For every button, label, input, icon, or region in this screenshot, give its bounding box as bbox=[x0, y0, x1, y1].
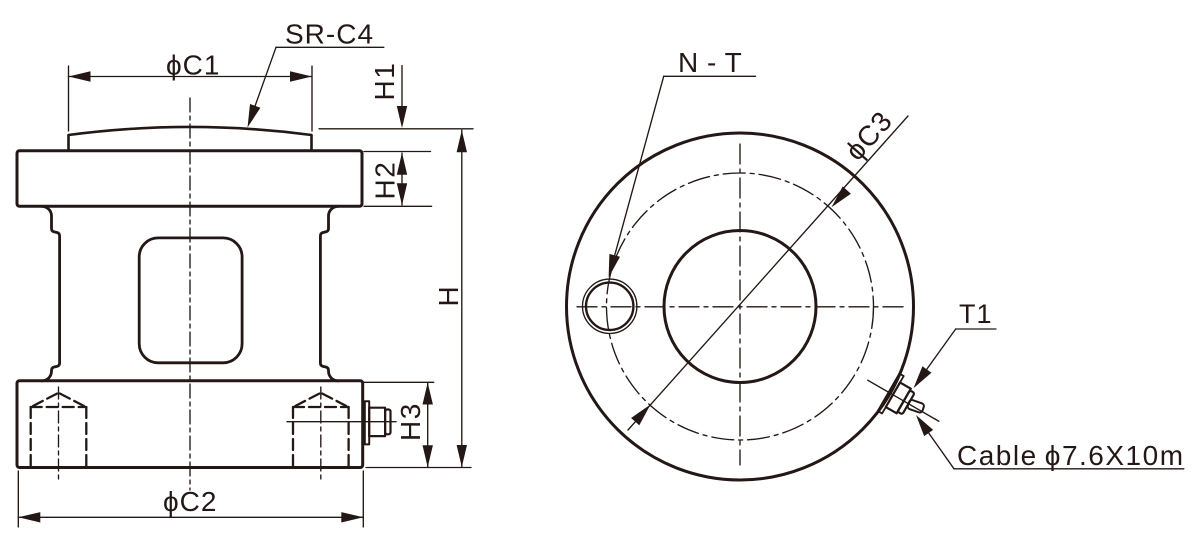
left view: cable entry fitting nub bbox=[385, 410, 390, 435]
svg-text:ϕC1: ϕC1 bbox=[166, 50, 220, 81]
left view: cable entry fitting plate bbox=[365, 401, 369, 444]
dimension H3: down arrowhead bbox=[423, 445, 433, 467]
dimension phiC2: left arrowhead bbox=[18, 512, 40, 522]
left view: left threaded hole (hidden, dashed) bbox=[31, 391, 87, 466]
left view: column body silhouette left side bbox=[42, 206, 60, 381]
left view: spherical load button (dome) bbox=[69, 127, 312, 151]
extension line at flange top (for H1/H2) bbox=[364, 151, 431, 153]
svg-text:H3: H3 bbox=[395, 402, 426, 441]
svg-text:H: H bbox=[433, 286, 464, 306]
svg-text:H2: H2 bbox=[370, 161, 401, 200]
cable gland axis center line bbox=[868, 380, 939, 421]
cable gland plate bbox=[878, 374, 904, 414]
label Cable leader line bbox=[929, 433, 954, 469]
dimension phiC1: right arrowhead bbox=[290, 71, 312, 81]
dimension phiC1: dimension line bbox=[69, 76, 313, 78]
label SR-C4 leader line bbox=[249, 47, 276, 123]
svg-text:SR-C4: SR-C4 bbox=[285, 19, 374, 50]
label Cable underline bbox=[954, 468, 1184, 470]
dimension H3: dimension line bbox=[427, 383, 429, 468]
dimension H2: dimension line bbox=[401, 153, 403, 205]
left view: cable fitting center line bbox=[287, 421, 396, 423]
dimension H: dimension line bbox=[461, 130, 463, 467]
left view: top flange plate bbox=[17, 151, 362, 207]
dimension H2: down arrowhead bbox=[397, 183, 407, 205]
right view: mounting hole thread circle bbox=[583, 279, 637, 333]
right view: cable gland assembly (rotated at circle edge) bbox=[857, 362, 950, 440]
right view: vertical center line bbox=[739, 144, 741, 465]
dimension phiC2: right arrowhead bbox=[341, 512, 363, 522]
dimension phiC2: extension lines bbox=[18, 471, 363, 527]
label SR-C4 underline bbox=[276, 46, 384, 48]
left view: right threaded hole (hidden, dashed) bbox=[293, 391, 349, 466]
dimension phiC2: dimension line bbox=[18, 516, 363, 518]
svg-text:T1: T1 bbox=[959, 299, 993, 329]
left view: central rounded-square hole bbox=[139, 238, 242, 363]
left view: left hole center line bbox=[58, 387, 60, 479]
right view: mounting hole inner circle bbox=[586, 283, 633, 330]
dimension H1: down arrowhead bbox=[397, 106, 407, 128]
svg-text:ϕC2: ϕC2 bbox=[163, 486, 217, 517]
dimension H: bottom arrowhead bbox=[457, 445, 467, 467]
svg-text:Cable ϕ7.6X10m: Cable ϕ7.6X10m bbox=[957, 440, 1185, 471]
label N-T arrowhead bbox=[609, 254, 620, 278]
dimension H: top arrowhead bbox=[457, 130, 467, 152]
left view: column body silhouette right side bbox=[320, 206, 338, 381]
cable stub bbox=[907, 399, 925, 413]
right view: horizontal center line bbox=[577, 306, 905, 308]
dimension phiC1: extension lines bbox=[69, 66, 313, 131]
label T1 leader line bbox=[917, 329, 956, 384]
extension line at dome top (for H1 and H) bbox=[319, 128, 473, 130]
left view: cable entry fitting body bbox=[369, 408, 385, 436]
svg-text:H1: H1 bbox=[369, 62, 400, 101]
dimension phiC3: upper arrowhead bbox=[832, 186, 851, 207]
right view: inner bore circle bbox=[664, 231, 816, 383]
label T1 underline bbox=[956, 328, 996, 330]
right view: outer circle bbox=[567, 133, 914, 480]
label Cable arrowhead bbox=[916, 415, 933, 436]
dimension phiC3: diagonal dimension line bbox=[628, 116, 908, 430]
dimension H3: extension line top bbox=[364, 381, 434, 383]
left view: bottom flange plate bbox=[17, 381, 363, 468]
label N-T leader line bbox=[615, 76, 664, 255]
dimension H3: up arrowhead bbox=[423, 383, 433, 405]
cable gland body bbox=[886, 382, 911, 413]
dimension phiC1: left arrowhead bbox=[69, 71, 91, 81]
right view: bolt circle (dash-dot) bbox=[607, 173, 874, 440]
label T1 arrowhead bbox=[914, 366, 932, 388]
dimension phiC3: lower arrowhead bbox=[631, 405, 650, 426]
cable gland nub bbox=[898, 390, 915, 414]
dimension H2: up arrowhead bbox=[397, 153, 407, 175]
label SR-C4 arrowhead bbox=[248, 104, 261, 128]
dimension H1: line above bbox=[401, 66, 403, 113]
left view: right hole center line bbox=[320, 387, 322, 479]
svg-text:N - T: N - T bbox=[678, 47, 742, 78]
label N-T underline bbox=[664, 75, 756, 77]
left view: part vertical center line bbox=[189, 98, 191, 490]
extension line at flange bottom (for H2) bbox=[364, 205, 432, 207]
extension line at flange base (H3 and H bottom) bbox=[366, 467, 471, 469]
